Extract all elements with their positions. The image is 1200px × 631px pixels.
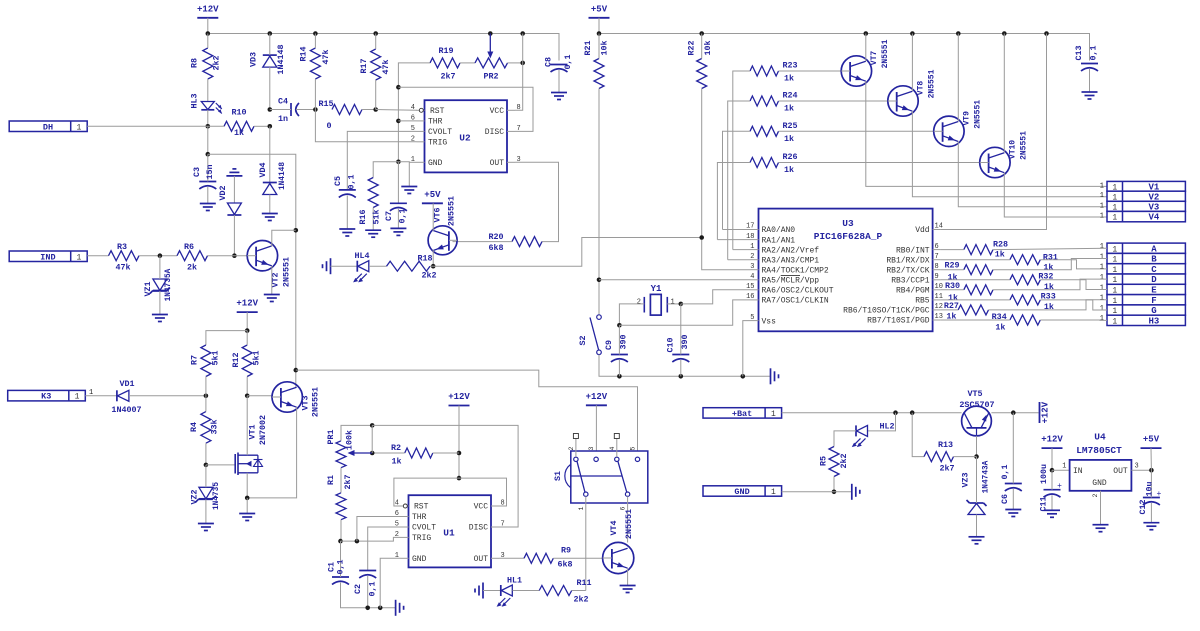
svg-text:VCC: VCC	[490, 107, 505, 116]
wire R17 bottom	[375, 80, 377, 110]
svg-text:1: 1	[771, 488, 776, 497]
power +5V (rail)	[589, 17, 610, 19]
resistor R1	[336, 493, 346, 520]
wire R30 left	[941, 289, 964, 291]
svg-text:390: 390	[619, 334, 629, 349]
svg-text:1k: 1k	[784, 104, 794, 114]
svg-text:47k: 47k	[381, 59, 391, 74]
svg-text:1: 1	[771, 410, 776, 419]
wire R8 top	[207, 34, 209, 49]
svg-text:5k1: 5k1	[211, 350, 221, 365]
svg-text:3: 3	[588, 446, 595, 450]
wire VT10 collector	[1003, 34, 1005, 153]
resistor R20	[512, 237, 542, 247]
svg-text:R29: R29	[944, 261, 959, 271]
svg-text:2k7: 2k7	[440, 72, 455, 82]
potentiometer PR2	[475, 58, 508, 68]
junction C2 bus	[365, 606, 370, 611]
wire DH node down	[207, 126, 209, 154]
zener VZ2	[199, 487, 213, 499]
wire R23 to pin	[733, 249, 751, 251]
wire VT1 source	[246, 473, 248, 498]
wire VT8 emitter	[912, 111, 1107, 197]
svg-text:VZ3: VZ3	[961, 472, 971, 487]
junction C9 bus	[617, 374, 622, 379]
svg-text:1: 1	[77, 123, 82, 132]
wire R24 to base	[779, 100, 888, 102]
op-amp U1 body	[409, 495, 492, 567]
svg-text:TRIG: TRIG	[412, 534, 431, 543]
wire R2 left	[372, 452, 405, 454]
wire R4 bottom	[205, 443, 207, 465]
wire R16 bottom	[372, 208, 374, 231]
svg-text:0,1: 0,1	[398, 208, 408, 223]
wire R2 right	[433, 452, 459, 454]
pin 3 S1 top	[594, 457, 598, 461]
op-amp U2 body	[425, 100, 508, 172]
svg-text:4: 4	[750, 273, 754, 281]
svg-text:1: 1	[75, 393, 80, 402]
pin 8 U1 VCC	[491, 505, 499, 507]
svg-text:R11: R11	[576, 578, 591, 588]
svg-text:7: 7	[935, 253, 939, 261]
svg-text:U1: U1	[443, 528, 455, 539]
svg-text:HL4: HL4	[354, 251, 369, 261]
wire RA7 net	[619, 300, 750, 325]
svg-text:2N5551: 2N5551	[973, 100, 982, 129]
wire C3 bottom	[207, 187, 209, 204]
wire IND	[87, 255, 108, 257]
svg-text:IN: IN	[1073, 467, 1083, 476]
junction R17 rail	[373, 31, 378, 36]
wire C11 top	[1051, 470, 1053, 490]
svg-text:R7: R7	[190, 355, 200, 365]
svg-text:VT5: VT5	[967, 389, 982, 399]
svg-text:RST: RST	[414, 503, 429, 512]
wire R32 to connector	[1040, 280, 1107, 290]
wire R19-PR2	[460, 62, 475, 64]
svg-text:GND: GND	[734, 487, 749, 497]
wire +12V stem	[207, 18, 209, 34]
resistor R7	[201, 345, 211, 377]
svg-text:1k: 1k	[784, 74, 794, 84]
wire C6 bottom	[1012, 489, 1014, 510]
svg-text:R2: R2	[391, 443, 401, 453]
pin 1 S1 bottom	[584, 492, 588, 496]
resistor R30	[964, 285, 993, 295]
svg-text:R28: R28	[993, 240, 1008, 250]
svg-text:2N5551: 2N5551	[311, 387, 321, 417]
wire VD4 bottom	[269, 195, 271, 214]
wire R13 right	[954, 456, 977, 458]
wire C1 bottom	[341, 583, 396, 608]
svg-text:1: 1	[1100, 305, 1104, 313]
wire HL3-node	[207, 110, 209, 127]
junction VD3 rail	[268, 31, 273, 36]
ground C13	[1082, 91, 1098, 93]
wire TRIG U1 net	[341, 537, 401, 541]
svg-text:C7: C7	[384, 211, 394, 221]
junction Vdd rail	[1044, 31, 1049, 36]
capacitor C6	[1005, 483, 1022, 485]
wire C1 top	[340, 541, 342, 577]
svg-text:2k2: 2k2	[573, 595, 588, 605]
svg-text:3: 3	[750, 263, 754, 271]
wire VZ1 bottom	[159, 291, 161, 315]
wire R33 left	[941, 299, 1010, 301]
svg-text:RST: RST	[430, 107, 445, 116]
LED HL1	[500, 585, 502, 596]
svg-text:RB3/CCP1: RB3/CCP1	[891, 277, 930, 286]
svg-text:S2: S2	[578, 335, 588, 345]
ground C12	[1143, 522, 1159, 524]
wire GND net left	[373, 162, 398, 178]
wire R12 top	[246, 331, 248, 345]
svg-text:RA1/AN1: RA1/AN1	[762, 236, 796, 245]
svg-text:R21: R21	[583, 40, 593, 55]
LED HL2	[855, 425, 857, 436]
pin 8 U2 VCC	[507, 109, 515, 111]
junction MCLR	[597, 278, 602, 283]
wire THR U1 net	[357, 517, 401, 542]
wire R11 right	[572, 590, 586, 592]
wire R34 to connector	[1040, 319, 1107, 321]
wire gnd-HL1	[483, 590, 501, 592]
junction +12V/R8	[206, 31, 211, 36]
transistor VT5	[962, 406, 992, 436]
pin 2 U1 TRIG	[401, 536, 409, 538]
svg-text:9: 9	[935, 273, 939, 281]
svg-text:1: 1	[1062, 463, 1066, 471]
svg-text:GND: GND	[428, 159, 443, 168]
svg-text:1N4148: 1N4148	[279, 162, 287, 190]
svg-text:6: 6	[935, 243, 939, 251]
junction PR2 right	[520, 61, 525, 66]
wire R22 down	[702, 89, 751, 270]
connector K3	[8, 390, 86, 401]
blade S1 b	[618, 461, 627, 492]
pin 11 U3 RB5	[933, 299, 941, 301]
svg-text:R6: R6	[184, 242, 194, 252]
pin 5 U2 CVOLT	[417, 130, 425, 132]
wire S1 pin3	[595, 405, 597, 457]
wire emitter jog to R22	[433, 238, 702, 267]
wire C12 bottom	[1150, 503, 1152, 523]
capacitor C8	[551, 64, 568, 66]
resistor R8	[203, 48, 213, 79]
pin 8 U3 RB2/TX/CK	[933, 269, 941, 271]
svg-text:RB0/INT: RB0/INT	[896, 246, 930, 255]
junction VT8 rail	[910, 31, 915, 36]
wire HL2 branch	[868, 413, 896, 431]
pin 9 U3 RB3/CCP1	[933, 279, 941, 281]
svg-text:2N5551: 2N5551	[928, 69, 937, 98]
pin 1 U2 GND	[417, 161, 425, 163]
pin bubble U1 RST	[403, 504, 407, 508]
svg-text:2k: 2k	[187, 263, 197, 273]
resistor R26	[750, 158, 779, 168]
wire +12V stem 2	[246, 312, 248, 331]
wire R25 to base	[779, 130, 934, 132]
wire VCC branch	[459, 478, 507, 506]
potentiometer PR1	[336, 441, 346, 468]
svg-text:0,1: 0,1	[347, 174, 357, 189]
wire HL4-R18	[369, 265, 387, 267]
wire R23 to base	[779, 70, 842, 72]
junction VT9 rail	[956, 31, 961, 36]
wire +12V rail	[208, 34, 559, 61]
svg-text:10u: 10u	[1145, 481, 1155, 496]
svg-text:R3: R3	[117, 242, 127, 252]
junction C10 bus	[679, 374, 684, 379]
svg-text:1: 1	[395, 552, 399, 560]
ground R16	[365, 229, 381, 231]
svg-text:1: 1	[1100, 243, 1104, 251]
wire OUT net	[515, 162, 559, 241]
capacitor C12 (electrolytic)	[1143, 497, 1160, 499]
transistor VT4	[603, 542, 634, 573]
svg-text:RB4/PGM: RB4/PGM	[896, 287, 930, 296]
svg-text:15: 15	[746, 283, 754, 291]
wire HL2-R5	[834, 431, 856, 447]
bracket S1	[565, 465, 571, 488]
wire source ground	[246, 498, 248, 514]
wire GND U1 net	[380, 558, 400, 608]
svg-text:2: 2	[395, 531, 399, 539]
wire C2 bottom	[367, 576, 369, 608]
power +12V (S1)	[586, 404, 607, 406]
svg-text:VT4: VT4	[609, 520, 619, 535]
wire Vss net	[743, 321, 751, 377]
svg-text:+5V: +5V	[1143, 435, 1160, 445]
wire R28 left	[941, 249, 964, 251]
wire VT1 drain	[246, 396, 248, 455]
wire C6 top	[1012, 413, 1014, 484]
pin 3 U1 OUT	[491, 557, 499, 559]
svg-text:0,1: 0,1	[563, 54, 573, 69]
wire S1 pin1 down	[585, 496, 587, 590]
pin 16 U3 RA7/OSC1/CLKIN	[751, 299, 759, 301]
svg-text:R17: R17	[359, 58, 369, 73]
pin 6 U2 THR	[417, 120, 425, 122]
ground C8	[551, 92, 567, 94]
pin 18 U3 RA1/AN1	[751, 239, 759, 241]
ground HL4	[330, 258, 332, 274]
wire VD3 top	[269, 34, 271, 56]
svg-text:VD3: VD3	[249, 52, 259, 67]
wire VZ2 bottom	[205, 499, 207, 523]
pin 4 U2 RST	[417, 109, 425, 111]
ground flipped (VD2 top)	[226, 175, 242, 177]
power +12V (VT1 area)	[237, 311, 258, 313]
resistor R22	[697, 59, 707, 89]
svg-text:6: 6	[395, 510, 399, 518]
pin 7 U3 RB1/RX/DX	[933, 259, 941, 261]
pin 3 U3 RA4/TOCK1/CMP2	[751, 269, 759, 271]
wire CVOLT net	[347, 131, 416, 190]
resistor R14	[310, 48, 320, 79]
junction R7/R12 rail	[245, 328, 250, 333]
svg-text:IND: IND	[40, 252, 55, 262]
resistor R16	[368, 178, 378, 208]
pin 2 S1 top	[574, 457, 578, 461]
svg-text:VT1: VT1	[248, 424, 258, 439]
wire R25 left	[723, 131, 751, 229]
resistor R33	[1010, 295, 1040, 305]
svg-text:2: 2	[1092, 493, 1099, 497]
pin 17 U3 RA0/AN0	[751, 229, 759, 231]
connector DH	[9, 121, 87, 132]
wire node A horizontal	[208, 154, 296, 388]
junction +5V/R21	[597, 31, 602, 36]
junction R5/GND wire	[832, 490, 837, 495]
connector B	[1107, 253, 1185, 263]
wire PR2 right	[508, 62, 523, 64]
wire VZ2 top	[205, 465, 207, 487]
junction VCC/RST branch	[457, 476, 462, 481]
ground C3	[200, 203, 216, 205]
svg-text:R8: R8	[190, 58, 200, 68]
svg-text:VT6: VT6	[433, 207, 443, 222]
pin 4 U1 RST	[401, 505, 409, 507]
wire C10 bottom	[680, 360, 682, 376]
resistor R15	[332, 105, 362, 115]
connector +Bat	[703, 408, 782, 418]
zener VZ1	[153, 279, 167, 291]
svg-text:1n: 1n	[278, 114, 288, 124]
wire IN stub	[1052, 469, 1070, 471]
svg-text:VT8: VT8	[917, 81, 926, 96]
svg-text:+12V: +12V	[586, 392, 608, 402]
wire Y1 pin1	[667, 303, 681, 305]
svg-text:C2: C2	[353, 584, 363, 594]
svg-text:5: 5	[750, 314, 754, 322]
junction PR1 top/wiper	[370, 423, 375, 428]
connector A	[1107, 243, 1185, 253]
ground VT1	[239, 513, 255, 515]
svg-text:VZ1: VZ1	[143, 281, 153, 296]
resistor R23	[750, 66, 779, 76]
capacitor C11 (electrolytic)	[1044, 489, 1061, 491]
svg-text:2: 2	[568, 446, 575, 450]
svg-text:6k8: 6k8	[557, 560, 572, 570]
svg-text:HL3: HL3	[190, 93, 200, 108]
svg-text:CVOLT: CVOLT	[412, 524, 436, 533]
junction DH node	[206, 124, 211, 129]
wire VT10 emitter	[1004, 173, 1107, 217]
svg-text:15n: 15n	[205, 164, 215, 179]
wire R34 left	[941, 319, 1010, 321]
svg-text:C6: C6	[1000, 494, 1010, 504]
svg-text:+12V: +12V	[197, 4, 219, 14]
ground C7	[390, 227, 406, 229]
wire OUT stub U4	[1131, 469, 1151, 471]
junction VT10 rail	[1002, 31, 1007, 36]
wire C7 bottom	[397, 209, 399, 229]
svg-text:RA6/OSC2/CLKOUT: RA6/OSC2/CLKOUT	[762, 287, 834, 296]
wire R28 to connector	[993, 248, 1107, 249]
svg-text:C3: C3	[192, 167, 202, 177]
svg-text:+12V: +12V	[448, 392, 470, 402]
wire C4 right	[296, 109, 315, 111]
wire VD2 bottom	[233, 215, 235, 256]
ground U1 bus	[395, 600, 397, 616]
capacitor C4	[290, 103, 292, 116]
junction R2/+12V	[457, 451, 462, 456]
svg-text:2: 2	[750, 253, 754, 261]
junction C6/+12V	[1011, 410, 1016, 415]
resistor R18	[387, 261, 431, 271]
wire GND pin stub	[409, 161, 416, 163]
wire R5 bottom	[833, 477, 835, 492]
svg-text:1: 1	[1100, 315, 1104, 323]
connector C	[1107, 264, 1185, 274]
overline MCLR	[781, 275, 800, 277]
junction Y1-2/C9/RA7	[617, 323, 622, 328]
capacitor C5	[339, 189, 356, 191]
pin 15 U3 RA6/OSC2/CLKOUT	[751, 289, 759, 291]
junction VD2/base	[232, 253, 237, 258]
wire R7 bottom	[205, 377, 207, 396]
svg-text:2k7: 2k7	[939, 464, 954, 474]
stub square pin2 S1	[575, 438, 577, 457]
junction DISC net	[396, 85, 401, 90]
power +12V (top left)	[197, 17, 218, 19]
resistor R34	[1010, 315, 1040, 325]
IC U3 body	[759, 209, 933, 332]
resistor R10	[224, 121, 254, 131]
wire RA6 net	[681, 290, 751, 304]
svg-text:1: 1	[1100, 295, 1104, 303]
wire R24 left	[728, 101, 750, 260]
svg-text:V4: V4	[1149, 213, 1160, 223]
power +12V right (rotated)	[1039, 402, 1041, 423]
wire C5 bottom	[346, 195, 348, 229]
wire R14 bottom	[314, 79, 316, 110]
svg-text:+12V: +12V	[236, 299, 258, 309]
svg-text:+5V: +5V	[424, 190, 441, 200]
ground VZ1	[152, 314, 168, 316]
svg-text:U2: U2	[459, 133, 471, 144]
ground VT4	[620, 585, 636, 587]
wire R31 left	[941, 259, 1010, 261]
diode VD3	[263, 54, 277, 56]
svg-text:THR: THR	[412, 513, 427, 522]
svg-text:RB7/T10SI/PGD: RB7/T10SI/PGD	[867, 317, 930, 326]
svg-text:RA3/AN3/CMP1: RA3/AN3/CMP1	[762, 256, 820, 265]
wire R20-VT6 base	[453, 241, 513, 243]
junction THR branch	[355, 539, 360, 544]
connector V3	[1107, 201, 1185, 211]
svg-text:2k2: 2k2	[212, 55, 222, 70]
svg-text:OUT: OUT	[490, 159, 505, 168]
junction R22/jog	[699, 235, 704, 240]
wire C7 net	[397, 162, 399, 204]
svg-text:2N5551: 2N5551	[624, 509, 634, 539]
svg-text:R15: R15	[318, 99, 333, 109]
ground VZ3	[969, 536, 985, 538]
wire VT5 base	[976, 436, 978, 457]
svg-text:1k: 1k	[391, 457, 401, 467]
wire R10 left	[208, 125, 224, 127]
wire collector net to S1 pin5	[296, 370, 638, 457]
svg-text:1k: 1k	[995, 323, 1005, 333]
resistor R6	[177, 251, 208, 261]
pin 5 U1 CVOLT	[401, 526, 409, 528]
svg-text:8: 8	[935, 263, 939, 271]
svg-text:1: 1	[578, 506, 585, 510]
zener VZ3	[970, 502, 984, 504]
